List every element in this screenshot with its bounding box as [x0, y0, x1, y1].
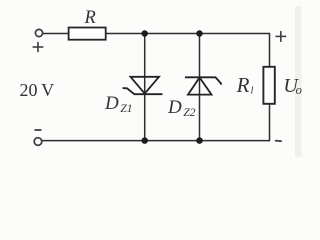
minus bottom-right — [275, 140, 282, 143]
svg-text:D: D — [167, 97, 182, 118]
svg-text:20 V: 20 V — [20, 80, 55, 100]
wire right branch lower — [269, 104, 271, 142]
junction dot top 1 — [141, 30, 148, 37]
zener diode D_Z2 triangle — [188, 78, 212, 95]
wire branch D_Z1 — [144, 34, 146, 141]
wire top from resistor to right corner — [106, 33, 270, 35]
zener diode D_Z1 triangle — [131, 77, 160, 94]
junction dot bottom 1 — [141, 137, 148, 144]
svg-text:R: R — [236, 73, 250, 97]
paper background — [0, 0, 307, 157]
svg-text:l: l — [251, 86, 254, 97]
svg-text:D: D — [104, 93, 119, 114]
plus top-right — [276, 31, 287, 42]
svg-text:Z1: Z1 — [120, 103, 132, 115]
junction dot bottom 2 — [196, 137, 203, 144]
wire top from + terminal to resistor R — [43, 33, 69, 35]
zener diode D_Z1 cathode bar with wing — [123, 88, 163, 94]
minus bottom-left — [35, 129, 42, 131]
zener diode D_Z2 cathode bar with wing — [185, 77, 221, 84]
wire right branch upper — [269, 33, 271, 67]
resistor R_L — [263, 67, 274, 104]
wire branch D_Z2 — [199, 34, 201, 141]
plus top-left — [33, 42, 44, 52]
green scan stripe right edge — [295, 6, 302, 157]
terminal top-left — [35, 29, 42, 36]
svg-text:Z2: Z2 — [183, 107, 195, 119]
terminal bottom-left — [34, 138, 42, 146]
svg-text:o: o — [296, 83, 302, 97]
resistor R — [69, 28, 106, 40]
junction dot top 2 — [196, 30, 203, 37]
svg-text:R: R — [84, 8, 96, 28]
wire bottom — [42, 140, 270, 142]
